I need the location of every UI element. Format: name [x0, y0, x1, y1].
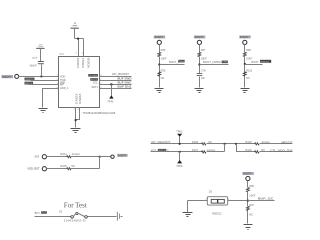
svg-text:NC: NC [208, 140, 212, 144]
ground (GND_1) [39, 109, 48, 113]
svg-text:NC: NC [161, 76, 165, 80]
wire row A [151, 143, 202, 145]
connector 3V3GTY (divider) [242, 172, 253, 181]
wire divider mid [247, 192, 249, 207]
resistor R36 [158, 52, 161, 56]
svg-text:3V3GTY: 3V3GTY [195, 37, 204, 39]
svg-text:BUF SWD: BUF SWD [118, 76, 132, 80]
wire col1 [159, 45, 161, 53]
wires right rows [100, 76, 132, 78]
wire row B right [237, 144, 255, 152]
wire test row [35, 216, 71, 218]
junction bottom [75, 119, 77, 121]
svg-text:NC: NC [249, 212, 253, 216]
end stub symbol [117, 212, 123, 221]
svg-text:R96: R96 [249, 184, 254, 188]
connector 3V3 row1 [42, 155, 46, 159]
svg-text:CTL_UDO_3V3: CTL_UDO_3V3 [270, 148, 293, 152]
svg-text:10KF: 10KF [246, 56, 253, 60]
wire BOOT_SW2 branch [245, 64, 263, 66]
junction TP40 [110, 83, 112, 85]
svg-text:NC: NC [246, 76, 250, 80]
svg-text:Jumper: Jumper [261, 140, 270, 144]
resistor R97 NC [246, 206, 249, 210]
connector 3V3GTY (col1) [154, 36, 165, 45]
svg-text:3V3GTY: 3V3GTY [240, 37, 249, 39]
filter D3 box [206, 197, 231, 205]
resistor R37 [198, 52, 201, 56]
svg-text:BOOT: BOOT [251, 60, 259, 64]
wire BUF_I2C branch [248, 200, 275, 202]
wire row3 [29, 84, 59, 86]
svg-text:GND_1: GND_1 [60, 86, 69, 90]
ground col2 [195, 89, 204, 93]
wire GND_1 row4 [43, 89, 59, 108]
junction rowA-rowB right [235, 143, 237, 145]
wire VDD row [19, 76, 59, 78]
resistor R108 Jumper (row A right) [255, 143, 259, 145]
svg-text:10KF: 10KF [249, 193, 256, 197]
svg-text:GND2: GND2 [74, 93, 78, 104]
svg-text:I2C_BOOST: I2C_BOOST [112, 72, 129, 76]
junction TP60 [179, 151, 181, 153]
resistor R38 [243, 52, 246, 56]
op IC U15 box [59, 57, 100, 108]
resistor R109 NC (row B right) [255, 151, 259, 153]
svg-text:D2: D2 [59, 209, 63, 213]
svg-text:1nF: 1nF [201, 76, 206, 80]
ground col3 [241, 89, 250, 93]
svg-text:10KF: 10KF [161, 56, 168, 60]
svg-text:R105: R105 [60, 164, 67, 168]
svg-text:R37: R37 [201, 48, 206, 52]
wire ground to D3 [188, 200, 208, 202]
svg-text:VDD1: VDD1 [81, 57, 85, 69]
svg-text:D3: D3 [209, 189, 213, 193]
wire to TP40 [111, 85, 113, 96]
svg-text:TDO/SW: TDO/SW [89, 75, 97, 77]
svg-text:R38: R38 [246, 48, 251, 52]
wire BOOT_SW0 branch [160, 64, 185, 66]
svg-text:R102: R102 [246, 68, 253, 72]
capacitor C77 [29, 49, 44, 77]
capacitor C78 [197, 68, 206, 80]
test point TP60 [179, 152, 181, 161]
resistor R35 [158, 72, 161, 76]
junction TP62 [179, 143, 181, 145]
svg-text:MRGODT: MRGODT [282, 140, 293, 144]
svg-text:3V3GTY: 3V3GTY [243, 174, 252, 176]
svg-text:3V3GTY: 3V3GTY [154, 37, 163, 39]
junction row1 [99, 156, 101, 158]
svg-text:SW2X: SW2X [260, 62, 270, 64]
ground divider [244, 225, 253, 230]
svg-text:R106: R106 [192, 140, 199, 144]
junction rowA-rowB left [224, 143, 226, 145]
wire to right connector [100, 156, 111, 158]
svg-text:TP40: TP40 [107, 100, 114, 104]
svg-text:NC: NC [71, 164, 75, 168]
svg-text:R104: R104 [60, 152, 67, 156]
test point TP40 [109, 95, 113, 98]
jumper link D2 [71, 212, 88, 218]
wires bottom pins [75, 108, 77, 128]
svg-text:TP60: TP60 [176, 164, 183, 168]
junction col3 [244, 63, 246, 65]
resistor R105 NC [67, 168, 71, 170]
svg-text:3V3GTY: 3V3GTY [118, 156, 127, 158]
wire to end cap [88, 216, 117, 218]
svg-text:GND3: GND3 [78, 93, 82, 104]
ground (filter left) [187, 201, 189, 213]
wire row2 [31, 80, 59, 82]
connector VDD_RDT row2 [42, 167, 46, 171]
pin names right inside [88, 74, 98, 77]
svg-text:BUF SWC: BUF SWC [118, 80, 132, 84]
svg-text:C77: C77 [32, 56, 37, 60]
resistor R106 NC [202, 143, 206, 145]
svg-text:VDDD: VDDD [86, 57, 90, 68]
resistor R104 jumper [67, 156, 71, 158]
junction divider [247, 200, 249, 202]
connector 3V3GTY right [111, 155, 114, 158]
svg-text:BOT_: BOT_ [35, 211, 42, 215]
wire col3 [244, 45, 246, 53]
resistor R96 [246, 188, 249, 192]
wire power to U15 VDD pins [74, 29, 76, 39]
svg-text:R108: R108 [245, 140, 252, 144]
wire col2 mid [199, 57, 201, 74]
svg-text:R107: R107 [192, 148, 199, 152]
resistor R107 Jumper [202, 151, 206, 153]
net label SWDIO (left row2) [25, 78, 35, 81]
svg-text:BOOT_CMD0: BOOT_CMD0 [203, 60, 221, 64]
svg-text:BUF_I2C: BUF_I2C [258, 197, 274, 201]
svg-text:CMD: CMD [222, 62, 228, 64]
svg-text:TP62: TP62 [176, 130, 183, 134]
wire divider top [247, 181, 249, 188]
wire divider low [247, 211, 249, 224]
svg-text:SDT1: SDT1 [91, 85, 98, 89]
svg-text:3V3: 3V3 [34, 155, 39, 159]
svg-text:10KF: 10KF [201, 56, 208, 60]
wire col2 [199, 45, 201, 53]
wire row B left [151, 151, 202, 153]
svg-text:VDD_RDT: VDD_RDT [27, 167, 40, 171]
wire BOOT_CMD branch [200, 64, 229, 66]
svg-text:U15: U15 [59, 52, 64, 56]
svg-text:R109: R109 [245, 148, 252, 152]
connector 3V3GTY (col2) [194, 36, 205, 45]
svg-text:3V3GTY: 3V3GTY [2, 77, 11, 79]
svg-text:1N4148/2-D: 1N4148/2-D [64, 220, 86, 223]
ground (bottom pins) [71, 129, 81, 133]
svg-text:BUF EN1: BUF EN1 [118, 85, 133, 89]
resistor R102 [243, 72, 246, 76]
connector 3V3GTY (col3) [239, 36, 250, 45]
svg-text:RXE012: RXE012 [212, 211, 222, 215]
connector 3V3GTY (left) [2, 74, 19, 78]
power flag 3V3 (above C77) [36, 45, 44, 49]
svg-text:NC: NC [261, 148, 265, 152]
wire col3 mid [244, 57, 246, 88]
svg-text:R97: R97 [249, 203, 254, 207]
svg-text:R35: R35 [161, 68, 166, 72]
wire row1 [47, 156, 67, 158]
ground col1 [155, 89, 164, 93]
svg-text:R36: R36 [161, 48, 166, 52]
svg-text:VDD: VDD [60, 75, 66, 79]
wire col1 mid [159, 57, 161, 88]
svg-text:TPS3841A30DBVRQ1G4AB: TPS3841A30DBVRQ1G4AB [82, 111, 115, 115]
svg-text:Jumper: Jumper [71, 152, 80, 156]
junction (VDD pins) [77, 38, 79, 40]
svg-text:C78: C78 [201, 68, 206, 72]
junction col1 [158, 63, 160, 65]
junction C77 [40, 75, 42, 77]
svg-text:Jumper: Jumper [207, 148, 216, 152]
svg-text:100nF: 100nF [29, 63, 37, 67]
junction col2 [198, 63, 200, 65]
wire row2 up to row1 [99, 157, 101, 169]
wire row2 [47, 168, 67, 170]
net label SWCLK (left row3) [25, 82, 34, 85]
power flag 3V3 (above U15) [71, 23, 79, 29]
wire D3 to divider [228, 200, 248, 202]
svg-text:For Test: For Test [64, 201, 87, 209]
svg-text:SCL: SCL [93, 81, 99, 85]
wire col2 low [199, 77, 201, 88]
svg-text:VDD3: VDD3 [76, 57, 80, 69]
